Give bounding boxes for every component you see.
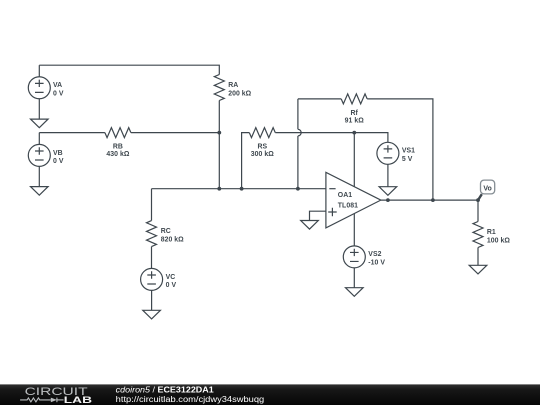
- node junction op-amp V+ supply: [352, 131, 356, 135]
- svg-text:5 V: 5 V: [402, 156, 413, 163]
- svg-text:100 kΩ: 100 kΩ: [487, 237, 510, 244]
- op-amp OA1 triangle: [326, 172, 381, 228]
- op-amp minus input sign: [329, 188, 335, 190]
- wire RB right lead: [131, 132, 219, 134]
- wire op-amp non-inverting input: [310, 211, 326, 220]
- wire VB positive lead: [38, 133, 40, 145]
- wire Rf left vertical lower segment: [297, 136, 299, 189]
- voltage source VA: [28, 77, 50, 99]
- svg-text:RS: RS: [257, 144, 267, 151]
- svg-text:LAB: LAB: [64, 395, 92, 405]
- svg-text:Vo: Vo: [483, 185, 491, 192]
- svg-text:VA: VA: [53, 82, 62, 89]
- wire R1 bottom lead: [477, 248, 479, 266]
- ground under VC: [143, 310, 161, 319]
- node junction at output near op-amp: [386, 198, 390, 202]
- wire Rf right lead to output: [367, 99, 433, 200]
- wire VB node to RB: [39, 132, 105, 134]
- voltage source VC: [141, 268, 163, 290]
- wire VA negative lead: [38, 99, 40, 119]
- svg-text:820 kΩ: 820 kΩ: [161, 236, 184, 243]
- wire top net VA to RA: [39, 65, 219, 74]
- wire VS2 negative lead: [353, 268, 355, 288]
- svg-text:RA: RA: [228, 82, 238, 89]
- svg-text:91 kΩ: 91 kΩ: [345, 117, 365, 124]
- resistor RA: [214, 75, 224, 101]
- svg-text:VC: VC: [166, 274, 176, 281]
- svg-text:VS1: VS1: [402, 148, 415, 155]
- wire inverting input net: [152, 188, 326, 190]
- svg-text:Rf: Rf: [351, 110, 359, 117]
- ground under VS1: [379, 187, 397, 196]
- footer bar: [0, 384, 540, 405]
- ground at non-inverting input: [301, 221, 319, 230]
- node junction RS left lead: [240, 187, 244, 191]
- svg-text:VS2: VS2: [368, 251, 381, 258]
- node junction on inverting net below RA: [217, 187, 221, 191]
- svg-text:http://circuitlab.com/cjdwy34s: http://circuitlab.com/cjdwy34swbuqg: [116, 395, 265, 404]
- node junction feedback tap: [431, 198, 435, 202]
- wire VC negative lead: [151, 290, 153, 310]
- resistor R1: [473, 222, 483, 248]
- ground under VA: [31, 119, 49, 128]
- wire RA bottom lead: [218, 101, 220, 133]
- wire hop over inverting feed: [298, 129, 301, 136]
- wire op-amp V+ supply pin: [353, 133, 355, 187]
- wire Rf left lead horizontal: [298, 98, 341, 100]
- wire RS left lead vertical: [242, 133, 250, 189]
- resistor Rf: [341, 94, 367, 104]
- svg-text:0 V: 0 V: [166, 282, 177, 289]
- ground under R1: [469, 265, 487, 274]
- wire RS right lead to VS1: [275, 133, 388, 143]
- resistor RC: [147, 221, 157, 247]
- node Vo flag box: [481, 180, 495, 194]
- wire op-amp V- supply pin: [353, 214, 355, 246]
- wire RC top lead: [151, 189, 153, 221]
- CircuitLab logo squiggle resistor and diode: [20, 398, 63, 403]
- node junction RA-RB: [217, 131, 221, 135]
- wire RC to VC: [151, 247, 153, 269]
- op-amp plus input sign: [328, 208, 337, 216]
- node junction Rf to inverting net: [296, 187, 300, 191]
- svg-text:-10 V: -10 V: [368, 260, 385, 267]
- wire R1 top lead: [477, 200, 479, 221]
- svg-text:R1: R1: [487, 229, 496, 236]
- svg-text:300 kΩ: 300 kΩ: [251, 151, 274, 158]
- wire VB negative lead: [38, 166, 40, 186]
- wire VS1 negative lead: [387, 164, 389, 186]
- svg-text:TL081: TL081: [338, 203, 358, 210]
- svg-text:200 kΩ: 200 kΩ: [228, 90, 251, 97]
- resistor RB: [105, 128, 131, 138]
- node Vo flag pointer: [478, 194, 482, 200]
- svg-text:RB: RB: [113, 144, 123, 151]
- wire Rf left vertical upper segment: [297, 99, 299, 129]
- svg-text:RC: RC: [161, 228, 171, 235]
- svg-text:0 V: 0 V: [53, 158, 64, 165]
- resistor RS: [249, 128, 275, 138]
- ground under VB: [31, 187, 49, 196]
- voltage source VS2: [343, 246, 365, 268]
- voltage source VS1: [377, 142, 399, 164]
- node junction output to R1: [476, 198, 480, 202]
- wire VA positive lead: [38, 65, 40, 77]
- wire node B vertical to inverting net: [218, 133, 220, 189]
- svg-text:OA1: OA1: [338, 192, 352, 199]
- svg-text:430 kΩ: 430 kΩ: [106, 151, 129, 158]
- wire op-amp output net: [381, 199, 478, 201]
- svg-text:0 V: 0 V: [53, 91, 64, 98]
- ground under VS2: [346, 288, 364, 297]
- svg-text:VB: VB: [53, 150, 63, 157]
- voltage source VB: [28, 144, 50, 166]
- svg-text:cdoiron5 / ECE3122DA1: cdoiron5 / ECE3122DA1: [116, 385, 215, 394]
